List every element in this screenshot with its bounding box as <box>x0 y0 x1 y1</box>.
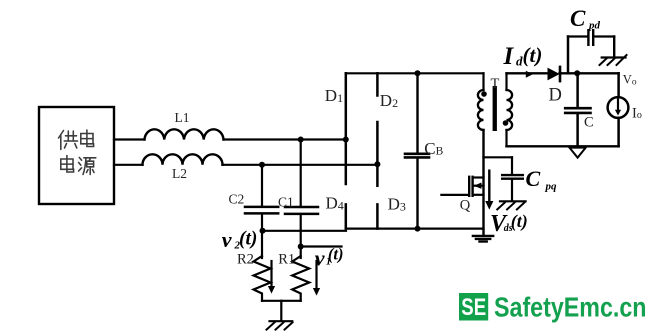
svg-text:C: C <box>570 6 586 31</box>
svg-text:Io: Io <box>632 106 642 122</box>
svg-text:Q: Q <box>460 198 471 214</box>
svg-text:(t): (t) <box>328 245 344 264</box>
svg-text:CB: CB <box>424 139 443 158</box>
svg-text:L2: L2 <box>172 166 187 181</box>
svg-text:D3: D3 <box>388 195 406 214</box>
svg-text:(t): (t) <box>511 211 528 232</box>
svg-text:v: v <box>315 246 325 271</box>
svg-text:T: T <box>491 76 500 92</box>
svg-text:I: I <box>503 43 515 70</box>
svg-text:D2: D2 <box>380 91 398 110</box>
svg-text:(t): (t) <box>239 229 257 250</box>
svg-text:SafetyEmc.cn: SafetyEmc.cn <box>494 292 647 323</box>
svg-text:L1: L1 <box>175 110 190 125</box>
svg-text:C: C <box>526 166 541 191</box>
svg-text:C: C <box>584 115 594 131</box>
svg-text:D: D <box>549 86 562 106</box>
svg-text:C1: C1 <box>278 195 294 210</box>
svg-text:Vo: Vo <box>623 73 637 88</box>
svg-text:pq: pq <box>545 181 558 193</box>
svg-text:pd: pd <box>588 20 601 32</box>
svg-text:R1: R1 <box>278 251 295 267</box>
svg-text:D4: D4 <box>326 194 344 213</box>
svg-text:SE: SE <box>461 294 486 321</box>
svg-text:(t): (t) <box>523 43 543 67</box>
svg-text:v: v <box>222 227 232 252</box>
svg-text:C2: C2 <box>229 192 245 207</box>
svg-text:D1: D1 <box>325 86 343 105</box>
svg-text:R2: R2 <box>237 251 254 267</box>
